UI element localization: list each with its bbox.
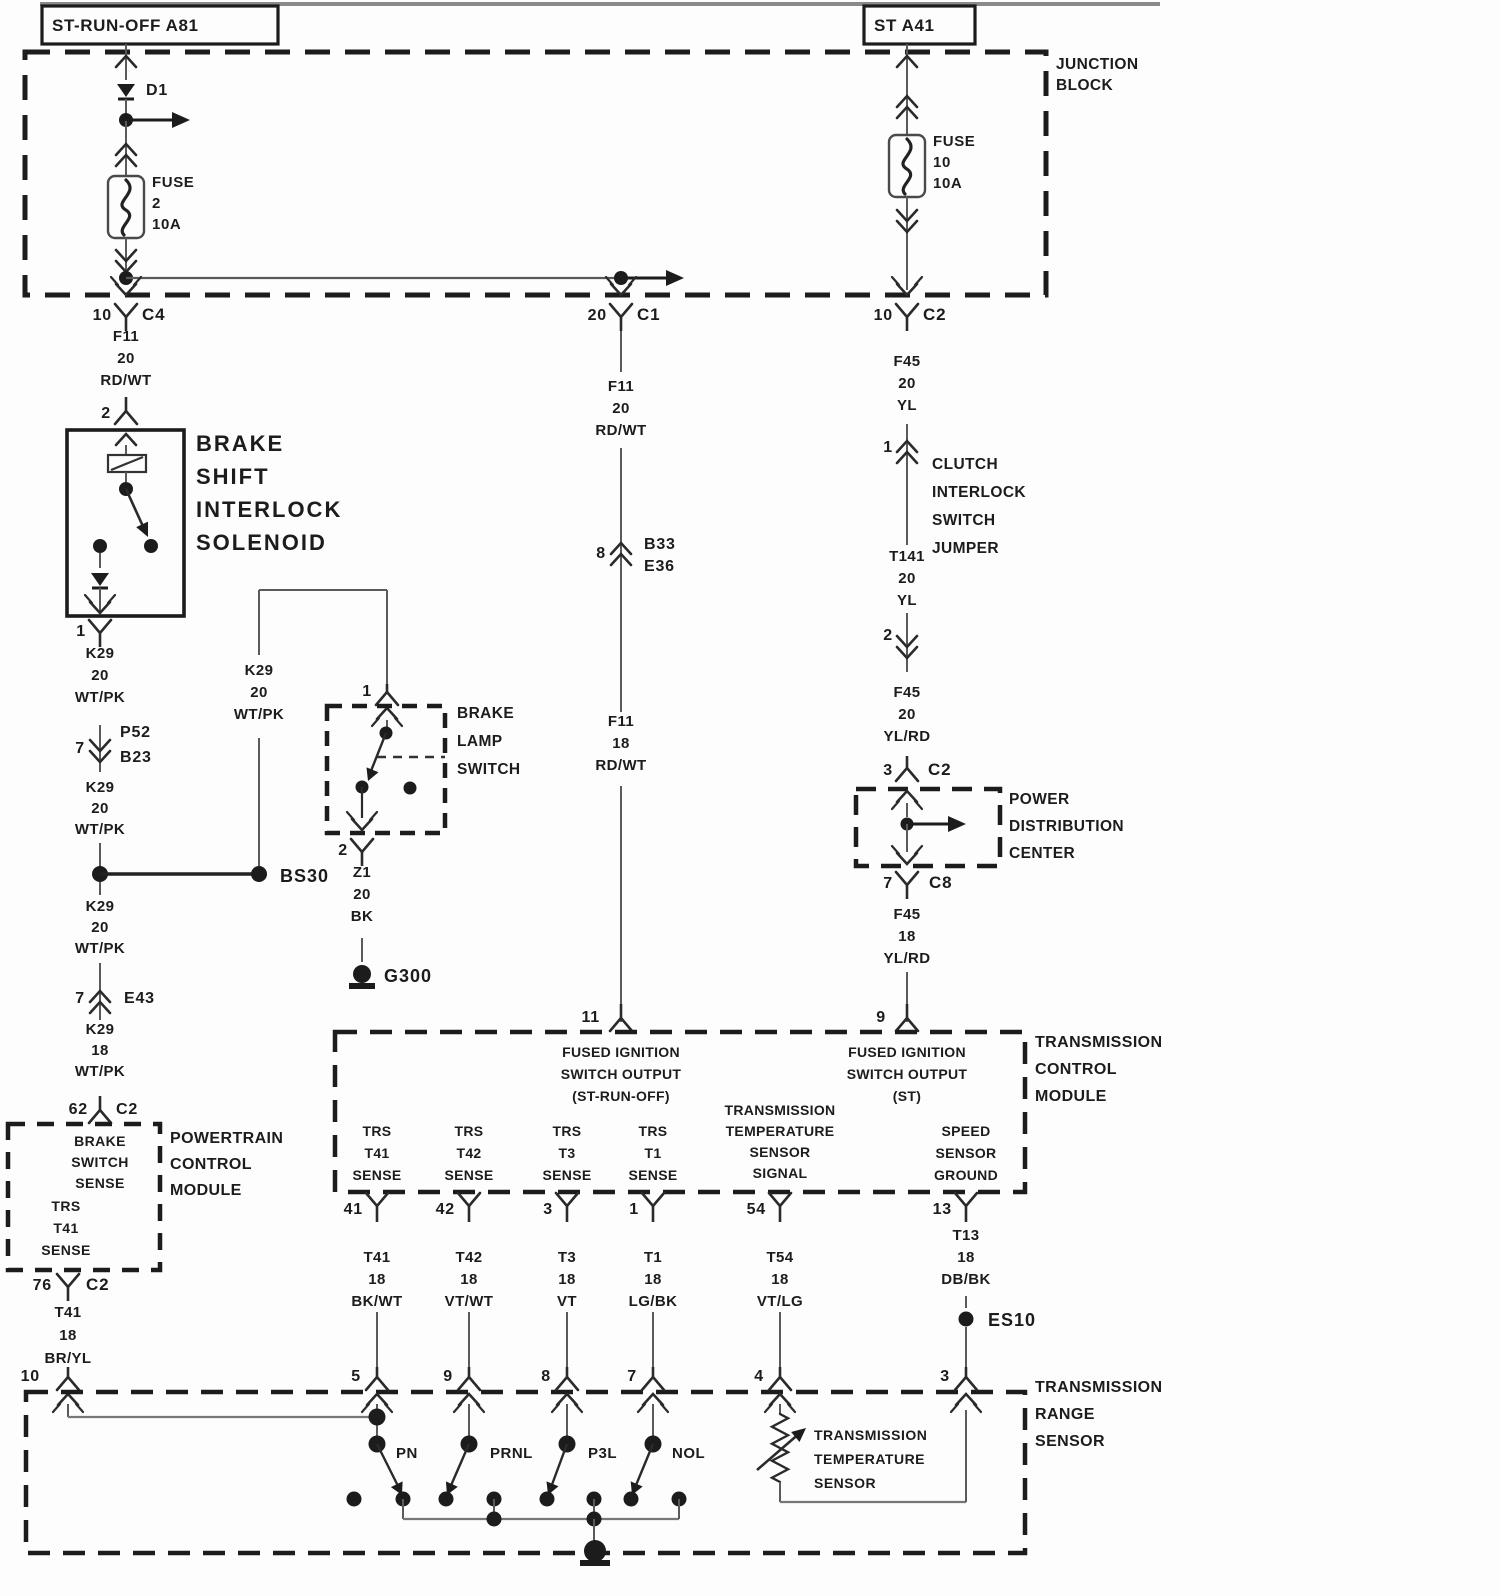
wire from A41 box into junction block <box>906 44 908 92</box>
svg-text:SOLENOID: SOLENOID <box>196 530 327 555</box>
PCM pin label TRS T41 SENSE <box>41 1198 90 1258</box>
svg-text:18: 18 <box>59 1327 77 1344</box>
svg-text:62: 62 <box>69 1101 88 1118</box>
junction block J1 dashed outline <box>25 52 1046 295</box>
node splice with right arrow inside junction block <box>119 112 190 128</box>
svg-text:WT/PK: WT/PK <box>75 940 125 957</box>
wire to ground G300 <box>361 938 363 962</box>
TCM pin label TRANSMISSION TEMPERATURE SENSOR SIGNAL <box>725 1102 836 1181</box>
wire T41 18 BK/WT label <box>351 1249 402 1310</box>
wire down to brake lamp switch pin 1 <box>386 590 388 688</box>
wire from A81 box into junction block <box>125 44 127 80</box>
svg-text:1: 1 <box>629 1201 639 1218</box>
switch arm P3L <box>547 1444 618 1495</box>
svg-text:2: 2 <box>338 842 348 859</box>
svg-text:TRS: TRS <box>553 1123 582 1139</box>
svg-text:10A: 10A <box>152 216 181 233</box>
svg-text:20: 20 <box>91 667 109 684</box>
wire F11 18 RD/WT label (lower middle) <box>595 713 646 774</box>
svg-text:TRS: TRS <box>363 1123 392 1139</box>
wire F11 20 RD/WT label (middle) <box>595 378 646 439</box>
wire F11 20 RD/WT label <box>100 328 151 389</box>
svg-text:BRAKE: BRAKE <box>196 431 284 456</box>
node PRNL switch pivot <box>461 1436 478 1453</box>
svg-text:WT/PK: WT/PK <box>75 689 125 706</box>
wire PDC node to bottom edge <box>906 824 908 852</box>
wire pin 8 into box <box>566 1404 568 1438</box>
node splice junction on K29 <box>92 866 108 882</box>
wire T13 to splice ES10 <box>965 1296 967 1308</box>
svg-text:MODULE: MODULE <box>170 1182 242 1199</box>
node ST A41 feed box <box>864 6 975 44</box>
svg-text:20: 20 <box>117 350 135 367</box>
svg-text:(ST-RUN-OFF): (ST-RUN-OFF) <box>572 1088 670 1104</box>
switch arm NOL <box>631 1444 705 1495</box>
svg-text:P52: P52 <box>120 724 151 741</box>
svg-text:PN: PN <box>396 1445 418 1462</box>
svg-text:1: 1 <box>76 623 86 640</box>
wire K29 20 WT/PK label (upper) <box>75 645 125 706</box>
svg-text:T3: T3 <box>559 1145 576 1161</box>
connector pin 2 below brake lamp switch <box>338 839 373 866</box>
wire pin 9 into box <box>468 1404 470 1438</box>
svg-text:RD/WT: RD/WT <box>100 372 151 389</box>
svg-text:7: 7 <box>627 1368 637 1385</box>
svg-text:K29: K29 <box>245 662 274 679</box>
svg-text:SENSOR: SENSOR <box>936 1145 997 1161</box>
power distribution center dashed box <box>856 789 1000 866</box>
node NOL contact <box>624 1492 639 1507</box>
wire temp sensor to pin 3 column <box>780 1410 966 1502</box>
connector C2 pin 76 below PCM <box>33 1274 110 1301</box>
svg-text:ES10: ES10 <box>988 1310 1036 1330</box>
node bus contact A <box>487 1492 502 1507</box>
svg-text:YL: YL <box>897 592 917 609</box>
wire below BS30 junction <box>99 882 101 895</box>
brake lamp switch pivot node <box>380 727 393 740</box>
svg-text:T41: T41 <box>363 1249 390 1266</box>
wire K29 18 WT/PK label (fourth) <box>75 1021 125 1080</box>
node ST-RUN-OFF A81 feed box <box>42 6 278 44</box>
transmission control module label <box>1035 1034 1162 1105</box>
wire T13 18 DB/BK label <box>941 1227 991 1288</box>
svg-text:E43: E43 <box>124 990 155 1007</box>
clutch jumper splice pin 2 <box>883 613 917 672</box>
wire T1 to transmission range sensor <box>652 1312 654 1368</box>
connector pin 1 below solenoid <box>76 620 111 647</box>
transmission temperature sensor RT1 <box>757 1414 806 1482</box>
svg-text:WT/PK: WT/PK <box>75 1063 125 1080</box>
svg-text:SWITCH OUTPUT: SWITCH OUTPUT <box>847 1066 968 1082</box>
svg-text:K29: K29 <box>86 645 115 662</box>
svg-text:4: 4 <box>754 1368 764 1385</box>
wire to splice B33 <box>620 448 622 712</box>
TCM pin label TRS T41 SENSE <box>353 1123 402 1183</box>
svg-text:18: 18 <box>368 1271 386 1288</box>
powertrain control module dashed box <box>8 1124 160 1270</box>
node bus contact B <box>587 1492 602 1507</box>
in-line connector E43 pin 7 <box>75 963 155 1020</box>
TCM pin label FUSED IGNITION SWITCH OUTPUT (ST) <box>847 1044 968 1104</box>
svg-text:TRS: TRS <box>51 1198 80 1214</box>
transmission range sensor dashed box <box>26 1392 1025 1553</box>
svg-text:TEMPERATURE: TEMPERATURE <box>814 1451 925 1467</box>
svg-text:10: 10 <box>93 307 112 324</box>
connector C2 pin 62 at PCM <box>69 1096 138 1123</box>
wire horizontal bus inside junction block to C1 column <box>126 277 621 279</box>
wire BS30 up to brake lamp switch (vertical) <box>258 590 260 866</box>
connector pin 9 at TRS top <box>443 1367 484 1412</box>
svg-text:2: 2 <box>883 627 893 644</box>
diode D1 <box>117 82 168 99</box>
wire T54 18 VT/LG label <box>757 1249 803 1310</box>
svg-text:T41: T41 <box>54 1304 81 1321</box>
PDC bottom chevron <box>892 846 922 864</box>
node splice ES10 <box>959 1310 1037 1330</box>
in-line connector P52 B23 pin 7 <box>75 724 151 772</box>
svg-text:DB/BK: DB/BK <box>941 1271 991 1288</box>
svg-text:BK/WT: BK/WT <box>351 1293 402 1310</box>
svg-text:SENSOR: SENSOR <box>814 1475 876 1491</box>
svg-text:2: 2 <box>152 195 161 212</box>
svg-text:B33: B33 <box>644 536 676 553</box>
svg-text:POWER: POWER <box>1009 791 1070 808</box>
TRS case ground <box>580 1540 610 1563</box>
brake shift interlock solenoid label <box>196 431 342 555</box>
brake lamp switch dashed contact line <box>377 756 445 758</box>
svg-text:1: 1 <box>883 439 893 456</box>
svg-text:T41: T41 <box>53 1220 78 1236</box>
connector pin 8 at TRS top <box>541 1367 582 1412</box>
svg-text:F45: F45 <box>893 684 920 701</box>
wire BS30 top corner horizontal <box>259 589 387 591</box>
solenoid internal diode <box>91 573 109 588</box>
svg-text:C8: C8 <box>929 873 952 892</box>
svg-text:11: 11 <box>581 1009 600 1026</box>
wire bus to case ground <box>593 1519 595 1545</box>
solenoid switch pivot node <box>119 482 133 496</box>
svg-text:3: 3 <box>883 762 893 779</box>
wire to TCM pin 9 <box>906 972 908 1022</box>
in-line connector double chevron below fuse 10 <box>897 197 917 290</box>
svg-text:T42: T42 <box>455 1249 482 1266</box>
connector chevron below junction top edge <box>116 56 136 67</box>
svg-text:10: 10 <box>874 307 893 324</box>
svg-text:F11: F11 <box>608 713 634 730</box>
svg-text:LG/BK: LG/BK <box>629 1293 678 1310</box>
solenoid top chevron <box>116 434 136 455</box>
svg-text:BRAKE: BRAKE <box>74 1133 126 1149</box>
svg-text:3: 3 <box>543 1201 553 1218</box>
svg-text:D1: D1 <box>146 82 168 99</box>
transmission range sensor label <box>1035 1379 1162 1450</box>
wire below C1 <box>620 331 622 372</box>
node P3L switch pivot <box>559 1436 576 1453</box>
svg-text:FUSE: FUSE <box>152 174 194 191</box>
wire F45 20 YL/RD label <box>884 684 931 745</box>
svg-text:7: 7 <box>883 875 893 892</box>
svg-text:18: 18 <box>644 1271 662 1288</box>
svg-text:F45: F45 <box>893 353 920 370</box>
svg-text:18: 18 <box>771 1271 789 1288</box>
svg-text:WT/PK: WT/PK <box>75 821 125 838</box>
connector pin 5 at TRS top <box>351 1367 392 1412</box>
PDC node with right arrow <box>901 816 967 832</box>
svg-text:YL/RD: YL/RD <box>884 728 931 745</box>
node NOL switch pivot <box>645 1436 662 1453</box>
svg-text:TRANSMISSION: TRANSMISSION <box>725 1102 836 1118</box>
connector chevron at C4 through junction block edge <box>111 277 141 295</box>
svg-text:YL: YL <box>897 397 917 414</box>
fuse 10 10A <box>889 133 975 197</box>
connector chevron below junction top edge (right) <box>897 56 917 67</box>
connector chevron at C1 through junction block edge <box>606 277 636 295</box>
connector C4 pin 10 <box>93 304 166 331</box>
svg-text:SWITCH OUTPUT: SWITCH OUTPUT <box>561 1066 682 1082</box>
svg-text:2: 2 <box>101 405 111 422</box>
wire TRS common bus <box>403 1499 679 1519</box>
svg-text:18: 18 <box>460 1271 478 1288</box>
svg-text:T54: T54 <box>766 1249 793 1266</box>
connector pin 2 at solenoid <box>101 397 137 424</box>
connector pin 9 at TCM <box>876 1004 918 1031</box>
brake lamp switch label <box>457 705 521 778</box>
svg-text:C1: C1 <box>637 305 660 324</box>
power distribution center label <box>1009 791 1124 862</box>
svg-text:T1: T1 <box>645 1145 662 1161</box>
svg-text:P3L: P3L <box>588 1445 617 1462</box>
node bus junction B <box>587 1512 602 1527</box>
svg-text:SWITCH: SWITCH <box>932 512 996 529</box>
svg-text:7: 7 <box>75 990 85 1007</box>
svg-text:SENSOR: SENSOR <box>1035 1433 1105 1450</box>
switch arm PRNL <box>446 1444 533 1495</box>
svg-text:WT/PK: WT/PK <box>234 706 284 723</box>
node PN switch pivot <box>369 1436 386 1453</box>
connector C2 pin 3 at PDC <box>883 756 951 781</box>
wire to TCM pin 11 <box>620 786 622 1022</box>
connector pin 10 at transmission range sensor <box>21 1367 83 1412</box>
junction block label <box>1056 56 1138 94</box>
svg-text:C2: C2 <box>923 305 946 324</box>
svg-text:BS30: BS30 <box>280 866 329 886</box>
svg-text:RANGE: RANGE <box>1035 1406 1095 1423</box>
svg-text:BRAKE: BRAKE <box>457 705 514 722</box>
svg-text:20: 20 <box>898 570 916 587</box>
connector pin 3 at TCM bottom <box>543 1193 578 1222</box>
brake lamp switch pivot wire <box>386 720 388 727</box>
svg-text:SENSE: SENSE <box>75 1175 124 1191</box>
connector pin 3 at TRS top <box>940 1367 981 1412</box>
wire coil to switch pivot <box>125 472 127 482</box>
svg-text:VT/WT: VT/WT <box>445 1293 494 1310</box>
TCM pin label TRS T3 SENSE <box>543 1123 592 1183</box>
brake lamp switch arm <box>367 733 387 781</box>
in-line connector double chevron above fuse 10 <box>897 92 917 135</box>
transmission control module dashed box <box>335 1032 1025 1192</box>
svg-text:DISTRIBUTION: DISTRIBUTION <box>1009 818 1124 835</box>
svg-text:RD/WT: RD/WT <box>595 422 646 439</box>
in-line connector double chevron below fuse 2 <box>116 238 136 278</box>
TCM pin label FUSED IGNITION SWITCH OUTPUT (ST-RUN-OFF) <box>561 1044 682 1104</box>
node PRNL contact <box>439 1492 454 1507</box>
connector pin 4 at TRS top <box>754 1367 795 1412</box>
wire contact to diode <box>99 553 101 568</box>
wire K29 20 WT/PK label (second) <box>75 779 125 838</box>
connector chevron at C2 through junction block edge <box>892 277 922 295</box>
node bus contact C <box>672 1492 687 1507</box>
svg-text:MODULE: MODULE <box>1035 1088 1107 1105</box>
connector C8 pin 7 below PDC <box>883 872 952 899</box>
svg-text:10: 10 <box>933 154 951 171</box>
svg-text:SHIFT: SHIFT <box>196 464 270 489</box>
node PN switch feed junction <box>369 1409 386 1426</box>
svg-text:10A: 10A <box>933 175 962 192</box>
svg-text:TRANSMISSION: TRANSMISSION <box>814 1427 927 1443</box>
svg-text:TRS: TRS <box>639 1123 668 1139</box>
svg-text:LAMP: LAMP <box>457 733 503 750</box>
svg-text:F11: F11 <box>113 328 139 345</box>
svg-text:18: 18 <box>612 735 630 752</box>
svg-text:7: 7 <box>75 740 85 757</box>
wire pin 4 into box <box>779 1404 781 1414</box>
svg-text:T42: T42 <box>456 1145 481 1161</box>
svg-text:VT/LG: VT/LG <box>757 1293 803 1310</box>
connector pin 42 at TCM bottom <box>436 1193 480 1222</box>
svg-text:BK: BK <box>351 908 373 925</box>
svg-text:SENSE: SENSE <box>445 1167 494 1183</box>
connector C1 pin 20 <box>588 304 661 331</box>
svg-text:3: 3 <box>940 1368 950 1385</box>
svg-text:ST-RUN-OFF A81: ST-RUN-OFF A81 <box>52 16 199 35</box>
svg-text:CONTROL: CONTROL <box>1035 1061 1117 1078</box>
svg-text:TRANSMISSION: TRANSMISSION <box>1035 1034 1162 1051</box>
svg-text:C2: C2 <box>928 760 951 779</box>
wire T3 to transmission range sensor <box>566 1312 568 1368</box>
svg-text:C4: C4 <box>142 305 165 324</box>
svg-text:FUSE: FUSE <box>933 133 975 150</box>
brake lamp switch right contact node <box>404 782 417 795</box>
svg-text:9: 9 <box>876 1009 886 1026</box>
svg-text:C2: C2 <box>86 1275 109 1294</box>
PCM pin label BRAKE SWITCH SENSE <box>71 1133 129 1191</box>
svg-text:76: 76 <box>33 1277 52 1294</box>
svg-text:13: 13 <box>933 1201 952 1218</box>
node bus junction A <box>487 1512 502 1527</box>
wire T41 18 BR/YL label <box>45 1304 92 1367</box>
powertrain control module label <box>170 1130 283 1199</box>
svg-text:INTERLOCK: INTERLOCK <box>932 484 1026 501</box>
svg-text:20: 20 <box>353 886 371 903</box>
solenoid switch contact node <box>144 539 158 553</box>
svg-text:TRS: TRS <box>455 1123 484 1139</box>
svg-text:42: 42 <box>436 1201 455 1218</box>
svg-text:18: 18 <box>91 1042 109 1059</box>
svg-text:9: 9 <box>443 1368 453 1385</box>
svg-text:RD/WT: RD/WT <box>595 757 646 774</box>
svg-text:BLOCK: BLOCK <box>1056 77 1114 94</box>
wire F45 20 YL label <box>893 353 920 414</box>
solenoid bottom chevron at box edge <box>85 595 115 613</box>
svg-text:1: 1 <box>362 683 372 700</box>
svg-text:SPEED: SPEED <box>942 1123 991 1139</box>
connector pin 1 at TCM bottom <box>629 1193 664 1222</box>
wire ES10 to TRS pin 3 <box>965 1327 967 1368</box>
svg-text:41: 41 <box>344 1201 363 1218</box>
TCM pin label TRS T1 SENSE <box>629 1123 678 1183</box>
transmission temperature sensor label <box>814 1427 927 1491</box>
wire splice to BS30 <box>100 872 259 876</box>
connector C2 pin 10 (right) <box>874 304 947 331</box>
wire T42 to transmission range sensor <box>468 1312 470 1368</box>
svg-text:18: 18 <box>898 928 916 945</box>
svg-text:POWERTRAIN: POWERTRAIN <box>170 1130 283 1147</box>
svg-text:NOL: NOL <box>672 1445 705 1462</box>
svg-text:T141: T141 <box>889 548 925 565</box>
svg-text:F45: F45 <box>893 906 920 923</box>
in-line connector B33 E36 pin 8 <box>596 536 675 575</box>
svg-text:T3: T3 <box>558 1249 576 1266</box>
svg-text:SENSE: SENSE <box>353 1167 402 1183</box>
svg-text:SIGNAL: SIGNAL <box>753 1165 808 1181</box>
wire Z1 20 BK label <box>351 864 373 925</box>
wire top page border line <box>40 2 1160 6</box>
svg-text:T41: T41 <box>364 1145 389 1161</box>
ground G300 <box>349 965 432 986</box>
svg-text:T1: T1 <box>644 1249 662 1266</box>
wire T141 20 YL label <box>889 548 925 609</box>
wire pin 10 to PN switch node <box>68 1404 377 1417</box>
svg-text:CENTER: CENTER <box>1009 845 1075 862</box>
svg-text:(ST): (ST) <box>893 1088 921 1104</box>
wire K29 20 WT/PK label (third) <box>75 898 125 957</box>
svg-text:20: 20 <box>588 307 607 324</box>
node junction dot at C1 with arrow <box>614 270 684 286</box>
svg-text:20: 20 <box>250 684 268 701</box>
wire pin 5 into box <box>376 1404 378 1438</box>
wire F45 18 YL/RD label <box>884 906 931 967</box>
svg-text:20: 20 <box>91 800 109 817</box>
svg-text:10: 10 <box>21 1368 40 1385</box>
svg-text:JUMPER: JUMPER <box>932 540 999 557</box>
fuse 2 10A <box>108 174 194 238</box>
svg-text:CLUTCH: CLUTCH <box>932 456 998 473</box>
svg-text:B23: B23 <box>120 749 152 766</box>
svg-text:BR/YL: BR/YL <box>45 1350 92 1367</box>
node junction dot feeding C4 and C1 <box>119 271 133 285</box>
brake shift interlock solenoid box outline <box>67 430 184 616</box>
wire T3 18 VT label <box>557 1249 577 1310</box>
svg-text:5: 5 <box>351 1368 361 1385</box>
in-line connector double chevron above fuse 2 <box>116 121 136 176</box>
switch arm PN <box>377 1444 418 1495</box>
TCM pin label SPEED SENSOR GROUND <box>934 1123 998 1183</box>
svg-text:T13: T13 <box>952 1227 979 1244</box>
svg-text:SENSE: SENSE <box>543 1167 592 1183</box>
svg-text:18: 18 <box>957 1249 975 1266</box>
svg-text:CONTROL: CONTROL <box>170 1156 252 1173</box>
connector pin 11 at TCM <box>581 1004 632 1031</box>
wire to splice BS30 row <box>99 843 101 867</box>
svg-text:Z1: Z1 <box>353 864 371 881</box>
PDC top chevron <box>892 791 922 817</box>
svg-text:8: 8 <box>596 545 606 562</box>
svg-text:ST A41: ST A41 <box>874 16 935 35</box>
svg-text:GROUND: GROUND <box>934 1167 998 1183</box>
connector pin 7 at TRS top <box>627 1367 668 1412</box>
svg-text:INTERLOCK: INTERLOCK <box>196 497 342 522</box>
svg-text:K29: K29 <box>86 898 115 915</box>
